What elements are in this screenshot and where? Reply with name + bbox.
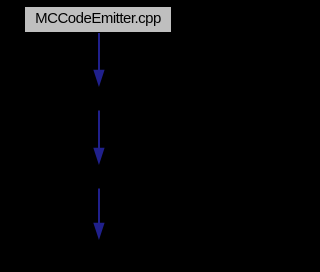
- wire edge 1 shaft: [98, 33, 100, 70]
- wire edge 3 shaft: [98, 189, 100, 224]
- node label MCCodeEmitter.cpp: [25, 7, 171, 32]
- edge 3 arrowhead: [93, 223, 104, 240]
- edge 1 arrowhead: [93, 70, 104, 87]
- include-dependency edges: [0, 0, 197, 272]
- edge 2 arrowhead: [93, 148, 104, 165]
- node MCCodeEmitter.cpp box: [24, 6, 172, 33]
- wire edge 2 shaft: [98, 111, 100, 149]
